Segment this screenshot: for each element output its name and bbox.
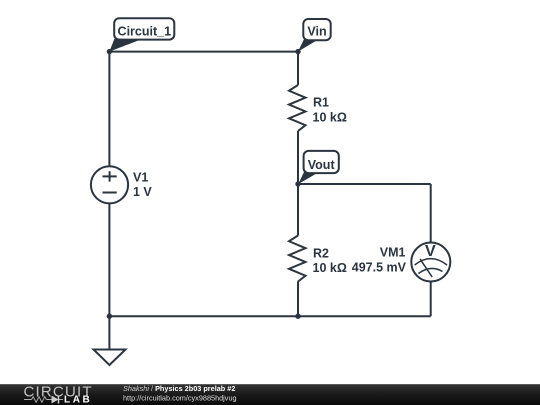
wire voltmeter top lead	[430, 184, 432, 243]
wire voltmeter bottom lead	[430, 282, 432, 317]
svg-text:1 V: 1 V	[133, 185, 152, 199]
node flag Vout tail	[298, 172, 318, 184]
voltage source V1 circle	[91, 166, 128, 203]
node flag Vout box	[304, 151, 339, 173]
node flag Circuit_1 box	[114, 18, 174, 39]
ground triangle	[94, 350, 126, 366]
svg-text:LAB: LAB	[64, 395, 92, 405]
footer bar	[0, 384, 540, 405]
V1 minus sign	[103, 192, 117, 194]
svg-text:V1: V1	[133, 171, 148, 185]
node flag Vin box	[303, 19, 330, 40]
svg-text:Circuit_1: Circuit_1	[118, 24, 172, 38]
wire middle rail (Vout to voltmeter)	[298, 183, 431, 185]
ground stem	[108, 316, 110, 349]
node flag Vin tail	[298, 40, 317, 52]
wire R2 bottom to bottom rail	[297, 282, 299, 317]
voltmeter VM1 circle	[411, 243, 450, 282]
footer logo schematic line with resistor and diode	[24, 397, 63, 403]
resistor R2	[289, 236, 306, 282]
wire left vertical upper	[108, 52, 110, 167]
svg-text:VM1: VM1	[380, 246, 406, 260]
voltmeter needle	[420, 259, 432, 277]
voltmeter meter face arcs	[415, 259, 447, 278]
junction node Circuit_1	[107, 49, 112, 54]
svg-text:R1: R1	[313, 96, 329, 110]
svg-text:V: V	[425, 243, 436, 260]
svg-text:http://circuitlab.com/cyx9885h: http://circuitlab.com/cyx9885hdjvug	[123, 394, 237, 403]
junction node R2 bottom	[295, 314, 300, 319]
svg-text:Vin: Vin	[307, 24, 326, 38]
node flag Circuit_1 tail	[109, 39, 139, 52]
svg-text:10 kΩ: 10 kΩ	[313, 261, 347, 275]
junction node ground tee	[107, 314, 112, 319]
footer logo diode symbol	[52, 396, 59, 404]
wire R1 bottom to Vout	[297, 131, 299, 184]
svg-text:10 kΩ: 10 kΩ	[313, 110, 347, 124]
wire top rail	[109, 51, 298, 53]
wire Vout to R2 top	[297, 184, 299, 236]
V1 plus sign	[103, 175, 117, 177]
svg-text:Shakshi / Physics 2b03 prelab: Shakshi / Physics 2b03 prelab #2	[123, 384, 235, 393]
svg-text:Vout: Vout	[308, 158, 336, 172]
svg-text:497.5 mV: 497.5 mV	[352, 260, 407, 274]
svg-text:R2: R2	[313, 246, 329, 260]
wire Vin to R1 top	[297, 52, 299, 85]
wire bottom rail	[109, 315, 430, 317]
junction node Vin	[295, 49, 300, 54]
resistor R1	[289, 85, 306, 131]
wire left vertical lower	[108, 203, 110, 316]
junction node Vout	[295, 181, 300, 186]
